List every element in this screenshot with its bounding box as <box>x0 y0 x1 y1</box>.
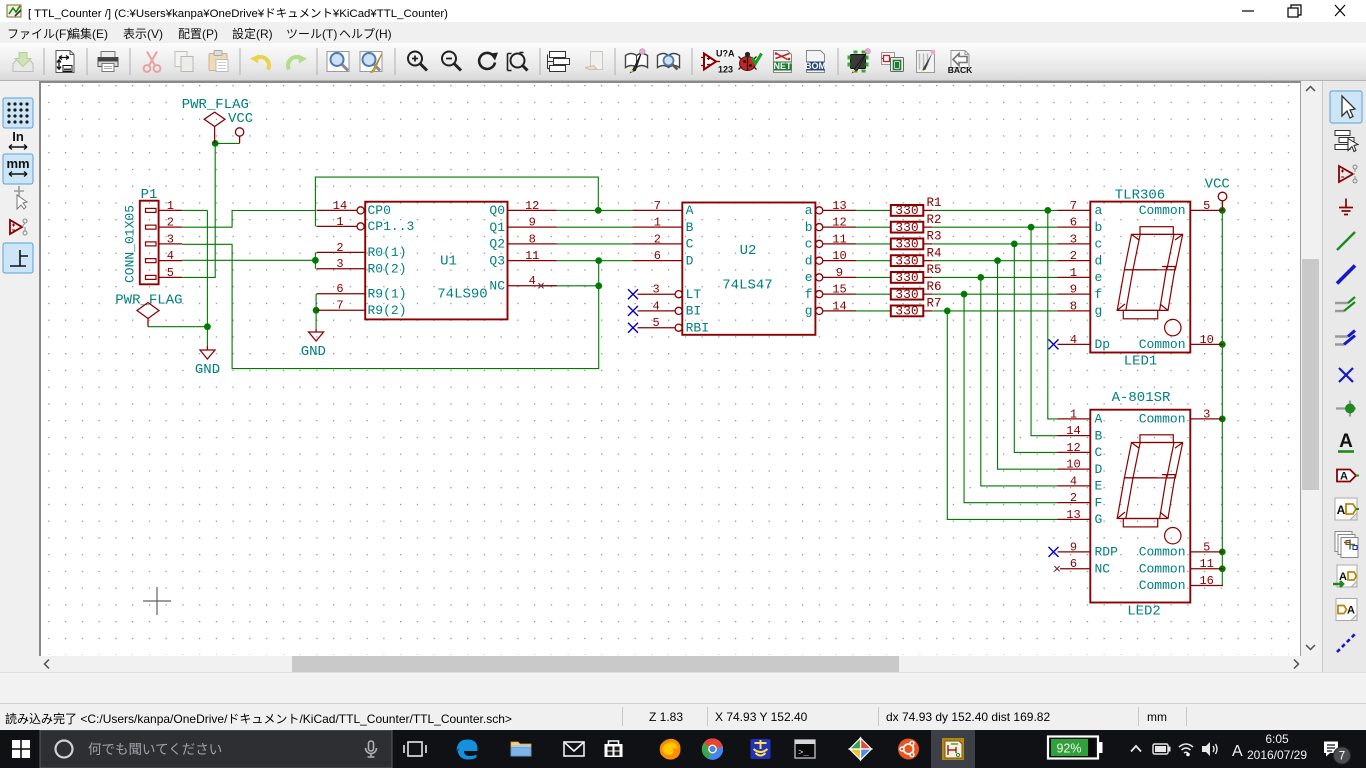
h scrollbar <box>41 656 1302 672</box>
svg-text:R0(2): R0(2) <box>368 261 407 276</box>
display LED1 TLR306 <box>1090 202 1190 353</box>
LED2 pin 9 RDP <box>1058 551 1091 553</box>
svg-text:A: A <box>1347 605 1355 617</box>
svg-text:P1: P1 <box>141 187 158 203</box>
svg-text:G: G <box>1095 512 1103 527</box>
svg-text:NC: NC <box>489 278 505 293</box>
svg-text:Common: Common <box>1139 545 1186 560</box>
U1 pin 8 Q2 <box>508 243 557 245</box>
svg-text:9: 9 <box>1070 540 1077 554</box>
svg-text:GND: GND <box>301 344 326 360</box>
wire R1 to LED1 pin <box>932 209 1057 211</box>
junction R9 node <box>313 307 320 314</box>
wire Q0 to U2 A <box>557 209 632 211</box>
svg-text:A: A <box>1232 743 1243 760</box>
LED2 seven-segment glyph <box>1117 435 1183 544</box>
svg-text:R1: R1 <box>927 196 942 210</box>
wire R5 branch to LED2 <box>981 277 1058 486</box>
svg-text:13: 13 <box>832 199 846 213</box>
resistor R7 330 <box>891 306 924 317</box>
junction LED2 pin11 <box>1219 565 1226 572</box>
LED1 pin 6 b <box>1058 226 1091 228</box>
svg-text:f: f <box>805 287 813 302</box>
svg-text:9: 9 <box>836 266 843 280</box>
svg-text:R0(1): R0(1) <box>368 245 407 260</box>
svg-text:2: 2 <box>167 216 174 230</box>
svg-text:g: g <box>805 304 813 319</box>
svg-text:D: D <box>1095 462 1103 477</box>
v scrollbar <box>1302 83 1319 653</box>
svg-text:BACK: BACK <box>948 65 973 75</box>
wire R4 to LED1 pin <box>932 260 1057 262</box>
svg-text:Common: Common <box>1139 412 1186 427</box>
svg-text:C: C <box>1095 445 1103 460</box>
svg-text:6:05: 6:05 <box>1265 732 1289 746</box>
menu bar <box>0 22 1366 43</box>
wire junction to VCC stem <box>215 142 239 144</box>
svg-text:1: 1 <box>167 199 174 213</box>
wire R7 to LED1 pin <box>932 310 1057 312</box>
LED1 pin 2 d <box>1058 260 1091 262</box>
junction R2 branch <box>1028 224 1035 231</box>
svg-text:330: 330 <box>895 304 918 319</box>
taskbar <box>0 730 1366 768</box>
resistor R1 330 <box>891 205 924 216</box>
svg-text:330: 330 <box>895 287 918 302</box>
svg-text:Q2: Q2 <box>489 237 505 252</box>
svg-text:A: A <box>1340 471 1348 483</box>
P1 pin 5 <box>146 275 157 279</box>
svg-text:R2: R2 <box>927 213 942 227</box>
svg-text:VCC: VCC <box>228 111 253 127</box>
svg-text:R5: R5 <box>927 263 942 277</box>
svg-text:14: 14 <box>333 199 347 213</box>
svg-text:10: 10 <box>832 249 846 263</box>
no-connect tick LED2 NC <box>1054 566 1059 571</box>
U2 pin 3 LT <box>638 293 675 295</box>
svg-text:E: E <box>1095 479 1103 494</box>
wire R3 branch to LED2 <box>1014 244 1057 453</box>
wire R2 to LED1 pin <box>932 226 1057 228</box>
wire Q1 to U2 B <box>557 226 632 228</box>
svg-text:9: 9 <box>1070 283 1077 297</box>
LED2 pin 6 NC <box>1060 568 1090 570</box>
U2 pin 5 RBI <box>638 327 675 329</box>
wire junction to GND1 <box>206 327 208 346</box>
svg-text:b: b <box>805 220 813 235</box>
no-connect X LED2 RDP <box>1049 547 1059 557</box>
resistor R3 330 <box>891 239 924 250</box>
svg-text:R6: R6 <box>927 280 942 294</box>
svg-text:CP0: CP0 <box>368 203 391 218</box>
P1 pin 2 <box>146 225 157 229</box>
svg-text:1: 1 <box>1070 266 1077 280</box>
svg-text:74LS90: 74LS90 <box>437 287 487 303</box>
svg-text:In: In <box>12 129 24 144</box>
no-connect tick U1 NC <box>538 283 543 288</box>
wire P1-2 to U1 CP0 <box>182 211 315 228</box>
svg-text:3: 3 <box>1203 407 1210 421</box>
resistor R2 330 <box>891 222 924 233</box>
svg-text:4: 4 <box>167 249 174 263</box>
svg-text:12: 12 <box>525 199 539 213</box>
junction R5 branch <box>977 274 984 281</box>
junction R1 branch <box>1044 207 1051 214</box>
IC U1 74LS90 <box>365 202 507 320</box>
svg-text:TLR306: TLR306 <box>1115 188 1165 204</box>
LED2 pin 1 A <box>1058 418 1091 420</box>
wire P1-5 to VCC <box>182 143 215 277</box>
svg-text:U1: U1 <box>440 254 457 270</box>
junction LED2 pin3 <box>1219 416 1226 423</box>
svg-text:b: b <box>1095 220 1103 235</box>
wire P1-3 to U1 NC node <box>182 244 599 368</box>
LED1 pin 10 Common <box>1190 343 1223 345</box>
svg-text:LED2: LED2 <box>1127 604 1161 620</box>
svg-text:11: 11 <box>525 249 539 263</box>
wire Q3 to U2 D <box>557 260 632 262</box>
display LED2 A-801SR <box>1090 410 1190 603</box>
message panel <box>0 672 1366 704</box>
svg-text:1: 1 <box>336 215 343 229</box>
svg-text:CP1..3: CP1..3 <box>368 219 415 234</box>
wire Q0 feedback to CP1..3 <box>315 177 598 226</box>
svg-text:7: 7 <box>654 199 661 213</box>
svg-text:5: 5 <box>1203 540 1210 554</box>
LED1 seven-segment glyph <box>1117 227 1183 336</box>
svg-text:Common: Common <box>1139 578 1186 593</box>
wire U2 pin to R3 <box>856 243 891 245</box>
LED2 pin 2 F <box>1058 502 1091 504</box>
right toolbar <box>1322 81 1366 672</box>
svg-text:6: 6 <box>1070 216 1077 230</box>
U1 pin 1 CP1..3 <box>317 225 357 227</box>
resistor R6 330 <box>891 289 924 300</box>
LED1 pin 1 e <box>1058 276 1091 278</box>
left toolbar <box>0 81 39 672</box>
svg-text:330: 330 <box>895 220 918 235</box>
svg-text:12: 12 <box>832 216 846 230</box>
no-connect X U2 BI <box>628 306 638 316</box>
junction R4 branch <box>994 257 1001 264</box>
title bar <box>0 0 1366 22</box>
svg-text:4: 4 <box>1070 474 1077 488</box>
svg-text:7: 7 <box>1339 751 1345 763</box>
LED1 pin 8 g <box>1058 310 1091 312</box>
svg-text:LT: LT <box>686 287 702 302</box>
svg-text:A-801SR: A-801SR <box>1112 390 1171 406</box>
svg-text:7: 7 <box>1070 199 1077 213</box>
svg-text:>_: >_ <box>798 748 809 758</box>
svg-text:3: 3 <box>167 232 174 246</box>
U1 pin 3 R0(2) <box>317 268 366 270</box>
svg-text:A: A <box>1339 431 1353 452</box>
editor crosshair cursor <box>143 587 171 615</box>
svg-text:Dp: Dp <box>1095 337 1111 352</box>
LED2 pin 13 G <box>1058 518 1091 520</box>
svg-text:2016/07/29: 2016/07/29 <box>1247 748 1307 762</box>
no-connect X U2 LT <box>628 289 638 299</box>
svg-text:g: g <box>1095 304 1103 319</box>
wire R4 branch to LED2 <box>998 261 1058 470</box>
svg-text:123: 123 <box>718 65 733 75</box>
app icon <box>7 5 21 17</box>
no-connect X LED1 Dp <box>1049 339 1059 349</box>
svg-text:12: 12 <box>1066 441 1080 455</box>
resistor R4 330 <box>891 255 924 266</box>
svg-text:10: 10 <box>1066 458 1080 472</box>
U2 pin 11 c <box>816 240 823 247</box>
wire R9(1)-R9(2) to GND2 <box>315 294 317 329</box>
LED2 pin 12 C <box>1058 451 1091 453</box>
svg-text:Common: Common <box>1139 203 1186 218</box>
svg-text:R9(2): R9(2) <box>368 303 407 318</box>
svg-text:D: D <box>686 253 694 268</box>
svg-text:74LS47: 74LS47 <box>722 278 772 294</box>
svg-text:C: C <box>686 237 694 252</box>
wire U1 NC pin to junction <box>541 285 599 287</box>
svg-text:4: 4 <box>529 274 536 288</box>
svg-text:A: A <box>686 203 694 218</box>
wire vertical to GND junction <box>206 210 208 326</box>
svg-text:A: A <box>1095 412 1103 427</box>
svg-text:R7: R7 <box>927 297 942 311</box>
junction VCC/PWR_FLAG <box>212 140 219 147</box>
junction LED2 pin5 <box>1219 549 1226 556</box>
svg-text:RDP: RDP <box>1095 545 1119 560</box>
U2 pin 6 D <box>632 260 682 262</box>
LED1 pin 3 c <box>1058 243 1091 245</box>
svg-text:R3: R3 <box>927 230 942 244</box>
wire U2 pin to R2 <box>856 226 891 228</box>
wire R2 branch to LED2 <box>1031 227 1057 436</box>
LED2 pin 10 D <box>1058 468 1091 470</box>
svg-text:16: 16 <box>1199 574 1213 588</box>
svg-text:R9(1): R9(1) <box>368 286 407 301</box>
wire Q3 junction down to NC junction <box>598 261 600 286</box>
svg-text:CONN_01X05: CONN_01X05 <box>123 205 138 283</box>
U2 pin 2 C <box>632 243 682 245</box>
svg-text:5: 5 <box>1203 199 1210 213</box>
svg-text:2: 2 <box>1070 491 1077 505</box>
canvas <box>39 81 1301 656</box>
wire P1-1 to GND net <box>182 209 207 211</box>
LED1 pin 4 Dp <box>1058 343 1091 345</box>
wire R6 to LED1 pin <box>932 293 1057 295</box>
LED2 pin 3 Common <box>1190 418 1223 420</box>
svg-text:BOM: BOM <box>805 61 826 71</box>
U2 pin 12 b <box>816 224 823 231</box>
U2 pin 13 a <box>816 207 823 214</box>
wire PWR_FLAG2 to junction <box>148 326 207 328</box>
U1 pin 11 Q3 <box>508 260 557 262</box>
close <box>1335 5 1345 16</box>
U2 pin 10 d <box>816 257 823 264</box>
junction R6 branch <box>961 291 968 298</box>
svg-text:15: 15 <box>832 283 846 297</box>
svg-text:Common: Common <box>1139 337 1186 352</box>
main toolbar <box>0 43 1366 81</box>
svg-text:9: 9 <box>529 216 536 230</box>
svg-text:6: 6 <box>1070 557 1077 571</box>
wire U2 pin to R6 <box>856 293 891 295</box>
svg-text:B: B <box>686 220 694 235</box>
junction R7 branch <box>944 308 951 315</box>
svg-text:6: 6 <box>336 282 343 296</box>
junction GND net <box>204 323 211 330</box>
status bar <box>0 704 1366 730</box>
svg-text:330: 330 <box>895 253 918 268</box>
svg-text:2: 2 <box>654 232 661 246</box>
svg-text:c: c <box>805 237 813 252</box>
svg-text:Q3: Q3 <box>489 253 505 268</box>
restore <box>1288 5 1301 17</box>
svg-text:2: 2 <box>336 241 343 255</box>
junction LED1 pin10 <box>1219 341 1226 348</box>
U1 pin 12 Q0 <box>508 209 557 211</box>
svg-text:330: 330 <box>895 237 918 252</box>
svg-text:RBI: RBI <box>686 320 709 335</box>
svg-text:7: 7 <box>336 299 343 313</box>
svg-text:5: 5 <box>167 266 174 280</box>
junction R3 branch <box>1011 241 1018 248</box>
svg-text:PWR_FLAG: PWR_FLAG <box>115 293 182 309</box>
svg-text:a: a <box>1095 203 1103 218</box>
svg-text:6: 6 <box>654 249 661 263</box>
wire U2 pin to R1 <box>856 209 891 211</box>
svg-text:U2: U2 <box>740 243 757 259</box>
U1 pin 14 CP0 <box>317 209 357 211</box>
U2 pin 14 g <box>816 307 823 314</box>
svg-text:3: 3 <box>336 257 343 271</box>
wire R1 branch to LED2 <box>1048 210 1058 419</box>
svg-text:2: 2 <box>1070 249 1077 263</box>
svg-text:8: 8 <box>1070 299 1077 313</box>
svg-text:8: 8 <box>529 232 536 246</box>
U2 pin 7 A <box>632 209 682 211</box>
wire R0(1)-R0(2) elbow <box>314 252 316 268</box>
svg-text:11: 11 <box>832 232 846 246</box>
junction Q3/D <box>595 257 602 264</box>
junction Q0 feedback <box>595 207 602 214</box>
svg-text:U?A: U?A <box>716 49 735 59</box>
LED2 pin 11 Common <box>1190 568 1223 570</box>
svg-text:mm: mm <box>6 156 29 171</box>
P1 pin 1 <box>146 208 157 212</box>
svg-text:14: 14 <box>1066 424 1080 438</box>
U1 pin 4 NC <box>508 285 557 287</box>
LED1 pin 5 Common <box>1190 209 1223 211</box>
LED2 pin 5 Common <box>1190 551 1223 553</box>
IC U2 74LS47 <box>682 203 815 335</box>
svg-text:d: d <box>1095 253 1103 268</box>
wire P1-4 to R0 node <box>182 259 315 261</box>
svg-text:GND: GND <box>195 362 220 378</box>
no-connect X U2 RBI <box>628 323 638 333</box>
svg-text:11: 11 <box>1199 557 1213 571</box>
wire Q2 to U2 C <box>557 243 632 245</box>
svg-text:a: a <box>805 203 813 218</box>
U2 pin 4 BI <box>638 310 675 312</box>
ground GND2 <box>315 329 317 332</box>
LED2 pin 14 B <box>1058 435 1091 437</box>
wire R6 branch to LED2 <box>964 294 1057 503</box>
svg-text:VCC: VCC <box>1205 176 1230 192</box>
svg-text:R4: R4 <box>927 246 942 260</box>
junction R0 node <box>312 257 319 264</box>
svg-text:5: 5 <box>652 316 659 330</box>
LED1 pin 7 a <box>1058 209 1091 211</box>
wire R7 branch to LED2 <box>947 311 1057 520</box>
svg-text:BI: BI <box>686 304 702 319</box>
svg-text:4: 4 <box>652 299 659 313</box>
svg-text:330: 330 <box>895 270 918 285</box>
svg-text:A: A <box>1337 503 1346 517</box>
svg-text:F: F <box>1095 495 1103 510</box>
svg-text:何でも聞いてください: 何でも聞いてください <box>88 742 222 757</box>
svg-text:10: 10 <box>1199 333 1213 347</box>
U1 pin 7 R9(2) <box>317 309 366 311</box>
LED2 pin 4 E <box>1058 485 1091 487</box>
LED2 pin 16 Common <box>1190 585 1223 587</box>
svg-text:3: 3 <box>1070 232 1077 246</box>
U2 pin 9 e <box>816 274 823 281</box>
svg-text:e: e <box>805 270 813 285</box>
connector P1 CONN_01X05 <box>140 201 159 285</box>
svg-text:14: 14 <box>832 299 846 313</box>
junction NC node <box>595 282 602 289</box>
LED1 pin 9 f <box>1058 293 1091 295</box>
svg-text:NET: NET <box>774 61 793 71</box>
junction VCC LED1 pin5 <box>1219 207 1226 214</box>
svg-text:f: f <box>1095 287 1103 302</box>
ground GND1 <box>206 346 208 350</box>
svg-text:B: B <box>1095 428 1103 443</box>
wire VCC2 vertical to commons <box>1221 204 1223 586</box>
P1 pin 3 <box>146 242 157 246</box>
svg-text:1: 1 <box>654 216 661 230</box>
svg-text:c: c <box>1095 237 1103 252</box>
svg-text:13: 13 <box>1066 508 1080 522</box>
wire U2 pin to R7 <box>856 310 891 312</box>
svg-text:4: 4 <box>1070 333 1077 347</box>
svg-text:Common: Common <box>1139 561 1186 576</box>
svg-text:3: 3 <box>652 283 659 297</box>
P1 pin 4 <box>146 259 157 263</box>
svg-text:330: 330 <box>895 203 918 218</box>
U2 pin 15 f <box>816 291 823 298</box>
svg-text:LED1: LED1 <box>1124 354 1158 370</box>
wire R3 to LED1 pin <box>932 243 1057 245</box>
svg-text:1: 1 <box>1070 407 1077 421</box>
svg-text:92%: 92% <box>1056 742 1081 756</box>
svg-text:NC: NC <box>1095 561 1111 576</box>
U2 pin 1 B <box>632 226 682 228</box>
svg-text:Q0: Q0 <box>489 203 505 218</box>
U1 pin 9 Q1 <box>508 226 557 228</box>
minimize <box>1242 10 1254 12</box>
wire U2 pin to R4 <box>856 260 891 262</box>
resistor R5 330 <box>891 272 924 283</box>
U1 pin 2 R0(1) <box>317 251 366 253</box>
wire R5 to LED1 pin <box>932 276 1057 278</box>
svg-text:d: d <box>805 253 813 268</box>
svg-text:e: e <box>1095 270 1103 285</box>
wire U2 pin to R5 <box>856 276 891 278</box>
U1 pin 6 R9(1) <box>317 293 366 295</box>
svg-text:Q1: Q1 <box>489 220 505 235</box>
